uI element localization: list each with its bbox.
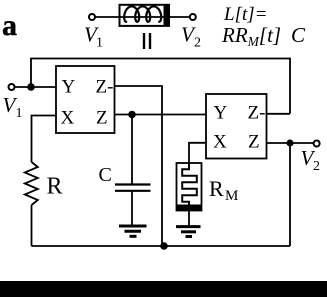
wire U2.X to memristor: [189, 143, 206, 163]
svg-text:a: a: [2, 9, 17, 42]
inductor L box: [120, 5, 170, 26]
junction dot: [128, 111, 136, 119]
wire U1.Z to U2.Y: [115, 114, 207, 116]
wire U2.Z to V2: [267, 142, 314, 144]
junction dot: [27, 83, 35, 91]
svg-text:Z: Z: [248, 132, 260, 153]
wire U2.Z- up: [267, 113, 291, 115]
ground (capacitor): [119, 225, 147, 228]
wire (inside inductor box): [120, 16, 190, 18]
svg-text:Y: Y: [62, 77, 76, 98]
svg-text:Z-: Z-: [96, 77, 114, 98]
junction dot (rail): [160, 242, 168, 250]
svg-text:2: 2: [313, 159, 320, 174]
bottom rail: [32, 245, 291, 247]
svg-text:RRM[t]: RRM[t]: [221, 23, 281, 49]
svg-text:1: 1: [96, 36, 103, 51]
bottom black bar: [0, 281, 327, 297]
memristor RM box: [177, 163, 202, 211]
junction dot: [287, 140, 294, 147]
top wire: [31, 59, 290, 114]
ground (memristor): [176, 225, 201, 228]
mutator U2 box: [206, 94, 267, 159]
svg-text:1: 1: [16, 106, 23, 121]
wire V1 to Y: [15, 86, 56, 88]
svg-text:M: M: [225, 188, 238, 204]
inductor coil: [124, 6, 161, 21]
svg-text:2: 2: [194, 36, 201, 51]
svg-text:Y: Y: [214, 103, 228, 124]
svg-text:L[t]=: L[t]=: [223, 4, 267, 25]
svg-text:R: R: [209, 176, 224, 201]
inductor polarity bar: [164, 5, 170, 26]
terminal V1 (left): [9, 84, 15, 90]
resistor R: [25, 162, 38, 205]
svg-text:X: X: [213, 132, 227, 153]
capacitor C plates: [115, 183, 151, 185]
svg-text:Z: Z: [96, 108, 108, 129]
svg-text:C: C: [99, 164, 112, 186]
wire resistor to rail: [31, 205, 33, 246]
wire to capacitor: [131, 115, 133, 185]
memristor meander: [182, 163, 197, 205]
terminal V1 (top): [89, 14, 95, 20]
wire memristor to ground: [188, 211, 190, 226]
wire U1.Z- down: [115, 86, 163, 246]
memristor bottom bar: [177, 205, 202, 211]
svg-text:Z-: Z-: [248, 103, 266, 124]
terminal V2 (right): [314, 141, 320, 147]
svg-text:X: X: [61, 108, 75, 129]
wire V2 node down: [289, 143, 291, 246]
wire U1.X to resistor: [32, 116, 57, 163]
mutator U1 box: [56, 66, 115, 133]
svg-text:C: C: [291, 23, 306, 47]
wire: [95, 16, 119, 18]
svg-text:R: R: [47, 174, 63, 200]
wire capacitor to ground: [131, 191, 133, 225]
parallel symbol: [143, 33, 145, 49]
terminal V2 (top): [190, 14, 196, 20]
